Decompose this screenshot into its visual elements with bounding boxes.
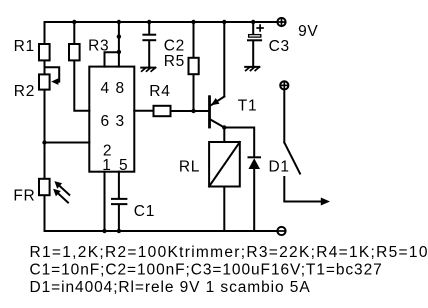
- node junction pin2 wire: [42, 140, 46, 144]
- ground below C2: [141, 67, 155, 69]
- trimmer R2 wiper arm: [45, 67, 60, 81]
- wire top rail +9V: [45, 21, 278, 23]
- resistor R4: [154, 106, 171, 116]
- svg-text:1: 1: [102, 157, 111, 174]
- transistor T1 base bar: [208, 97, 211, 127]
- wire R1 to R2: [44, 61, 46, 73]
- wire C3 to ground: [252, 41, 254, 67]
- transistor T1 emitter arrowhead: [211, 98, 220, 105]
- svg-text:R5: R5: [164, 53, 185, 70]
- wire rail to R5: [193, 22, 195, 57]
- node B tab corner: [117, 50, 121, 54]
- capacitor C3 positive plate: [249, 35, 261, 38]
- wire rail down to tab: [118, 22, 120, 67]
- node R5 on rail: [191, 20, 195, 24]
- ground below C3: [245, 66, 259, 68]
- wire rail to C2: [148, 22, 150, 34]
- node rail to tab: [117, 20, 121, 24]
- terminal 0V minus circle: [277, 227, 285, 235]
- photoresistor FR light arrow 1: [59, 185, 70, 195]
- pin tab 4-8 on IC top: [105, 52, 119, 66]
- wire pin 2 to IC: [45, 142, 90, 144]
- relay RL coil: [209, 142, 240, 187]
- photoresistor FR body: [39, 179, 50, 195]
- photoresistor FR light arrow 2: [57, 193, 68, 203]
- capacitor C3 negative plate: [248, 39, 261, 41]
- resistor R5: [189, 58, 199, 74]
- svg-text:R2: R2: [14, 83, 35, 100]
- wire R3 down to pin 6: [74, 61, 89, 110]
- trimmer R2 wiper arrowhead: [51, 78, 58, 85]
- wire switch lower contact: [284, 177, 322, 202]
- wire rail to C3: [252, 22, 254, 34]
- wire collector to relay: [223, 128, 225, 143]
- node pin1 on bottom rail: [102, 229, 106, 233]
- svg-text:C3: C3: [269, 38, 290, 55]
- wire C1 to bottom rail: [118, 205, 120, 231]
- switch D1 blade: [284, 143, 300, 174]
- svg-text:R1: R1: [14, 38, 35, 55]
- node pin5/C1 on bottom rail: [117, 229, 121, 233]
- wire pin 1 down: [104, 172, 106, 231]
- wire D1 to bottom rail: [253, 169, 255, 231]
- svg-text:8: 8: [115, 80, 124, 97]
- wire pin 5 to C1: [118, 172, 120, 199]
- svg-text:R4: R4: [149, 83, 170, 100]
- wire C2 to ground: [148, 41, 150, 68]
- transistor Q1 T1 emitter diagonal: [211, 97, 225, 106]
- node T1 emitter on rail: [222, 20, 226, 24]
- svg-text:R1=1,2K;R2=100Ktrimmer;R3=22K;: R1=1,2K;R2=100Ktrimmer;R3=22K;R4=1K;R5=1…: [30, 244, 428, 261]
- wire R4 to T1 base: [172, 110, 210, 112]
- wire FR down to bottom rail: [44, 196, 46, 231]
- svg-text:T1: T1: [238, 98, 257, 115]
- svg-text:RL: RL: [179, 158, 200, 175]
- transistor T1 collector diagonal: [210, 119, 225, 128]
- op-amp U1 555 timer body: [89, 67, 134, 172]
- capacitor C1: [112, 198, 126, 200]
- diode D1 triangle: [249, 158, 261, 169]
- svg-text:C1: C1: [134, 203, 155, 220]
- resistor R1: [39, 44, 50, 60]
- wire R2 down to FR: [44, 91, 46, 178]
- wire pin 3 to R4: [134, 110, 152, 112]
- node base junction: [191, 109, 195, 113]
- resistor R2 (trimmer body): [39, 74, 50, 89]
- wire rail to T1 emitter: [223, 22, 225, 97]
- wire collector to D1: [224, 128, 254, 157]
- terminal switch + circle: [280, 81, 288, 89]
- wire R5 to base node: [193, 75, 195, 111]
- capacitor C3 polarity plus: [257, 27, 263, 29]
- resistor R3: [69, 44, 80, 60]
- terminal +9V circle: [277, 18, 285, 26]
- output arrowhead: [321, 198, 330, 206]
- wire switch upper lead: [283, 90, 285, 142]
- diode D1 cathode bar: [249, 156, 261, 158]
- svg-text:4: 4: [100, 80, 109, 97]
- node C3 on rail: [251, 20, 255, 24]
- svg-text:C1=10nF;C2=100nF;C3=100uF16V;T: C1=10nF;C2=100nF;C3=100uF16V;T1=bc327: [30, 262, 383, 279]
- wire rail to R3: [73, 22, 75, 43]
- svg-text:R3: R3: [88, 38, 109, 55]
- svg-text:D1: D1: [269, 158, 290, 175]
- wire left branch down to R1: [44, 22, 46, 43]
- svg-text:3: 3: [115, 113, 124, 130]
- wire bottom rail 0V: [45, 230, 278, 232]
- wire relay to bottom rail: [223, 187, 225, 232]
- node R3 top on rail: [72, 20, 76, 24]
- node C2 on rail: [147, 20, 151, 24]
- svg-text:FR: FR: [13, 188, 35, 205]
- svg-text:9V: 9V: [298, 23, 318, 40]
- capacitor C2: [143, 34, 155, 36]
- svg-text:5: 5: [119, 157, 128, 174]
- node A on supply drop: [117, 34, 121, 38]
- svg-text:D1=in4004;Rl=rele 9V 1 scambio: D1=in4004;Rl=rele 9V 1 scambio 5A: [30, 279, 311, 296]
- node collector junction: [222, 125, 226, 129]
- svg-text:6: 6: [100, 113, 109, 130]
